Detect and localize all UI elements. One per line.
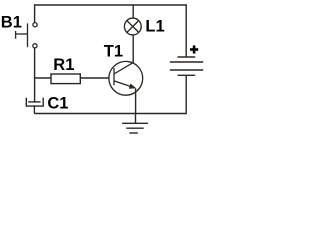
lamp L1 (124, 18, 141, 35)
wire base (R1 right to T1) (80, 77, 109, 79)
transistor T1 (109, 61, 143, 95)
wire button top lead (34, 4, 36, 22)
battery (170, 57, 203, 75)
resistor R1 (51, 74, 80, 84)
svg-text:L1: L1 (145, 18, 164, 36)
wire base (R1 left) (34, 77, 51, 79)
wire lamp to collector (132, 35, 134, 63)
battery plus sign (190, 45, 198, 53)
wire bottom rail (34, 113, 186, 115)
svg-text:B1: B1 (1, 14, 22, 32)
wire battery top lead (185, 4, 187, 57)
svg-text:C1: C1 (47, 95, 68, 113)
transistor T1 emitter arrowhead (129, 84, 136, 89)
wire emitter down (135, 88, 137, 113)
wire left rail (button to C1) (34, 48, 36, 102)
pushbutton B1 (16, 23, 38, 48)
svg-text:R1: R1 (53, 56, 74, 74)
svg-text:T1: T1 (104, 42, 123, 60)
wire lamp top (132, 5, 134, 18)
ground (122, 114, 148, 134)
capacitor C1 (26, 98, 43, 114)
wire top rail (34, 4, 186, 6)
wire battery bottom lead (185, 75, 187, 114)
